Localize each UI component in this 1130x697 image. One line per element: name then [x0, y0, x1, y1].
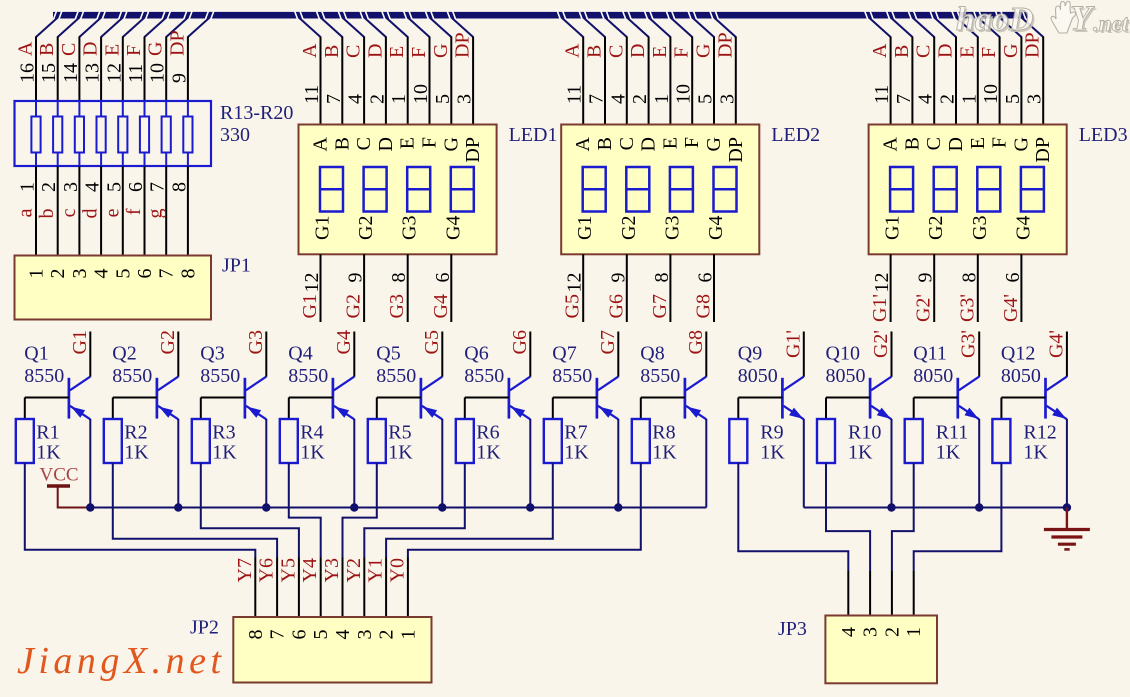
svg-text:A: A	[310, 136, 332, 151]
svg-text:8050: 8050	[826, 365, 866, 387]
svg-text:G3: G3	[245, 330, 267, 354]
svg-text:2: 2	[38, 182, 60, 192]
svg-text:6: 6	[1002, 273, 1024, 283]
resistor R11 1K	[905, 398, 923, 464]
svg-text:3: 3	[454, 94, 476, 104]
wire net Y4 : R4 to JP2 pin 5	[289, 463, 321, 617]
svg-text:Y1: Y1	[365, 558, 387, 582]
svg-text:15: 15	[38, 63, 60, 83]
svg-text:G4: G4	[705, 216, 727, 240]
svg-text:F: F	[978, 47, 1000, 58]
svg-text:G2: G2	[925, 216, 947, 240]
wire net Y2 : R6 to JP2 pin 3	[343, 463, 465, 617]
label R7 1K	[564, 422, 589, 464]
resistor R8 1K	[632, 398, 650, 464]
wire bus-entry/pin 12 net E (left group)	[101, 18, 144, 117]
junction Q10 emitter	[887, 503, 895, 511]
wire net Y6 : R2 to JP2 pin 7	[113, 463, 278, 617]
wire LED2 common pin 6 net G8	[693, 254, 717, 322]
wire net Y3 : R5 to JP2 pin 4	[321, 463, 377, 617]
wire bus-entry/pin 9 net DP (left group)	[166, 18, 209, 117]
svg-text:G1: G1	[574, 216, 596, 240]
junction Q3 emitter	[262, 503, 270, 511]
net label G8 at Q8 collector	[685, 330, 707, 354]
svg-text:8: 8	[388, 273, 410, 283]
wire bus entry to LED1 pin 10 net F	[408, 18, 432, 125]
svg-text:1K: 1K	[1023, 442, 1048, 464]
wire bus-entry/pin 14 net C (left group)	[58, 18, 101, 117]
svg-text:G: G	[1010, 137, 1032, 151]
svg-text:E: E	[967, 137, 989, 149]
resistor R5 1K	[368, 398, 386, 464]
resistor R17 (330)	[118, 117, 127, 153]
bus entry tick marks	[54, 11, 1026, 19]
transistor Q1 8550	[25, 332, 91, 508]
svg-text:7: 7	[893, 94, 915, 104]
wire bus entry to LED3 pin 1 net E	[956, 18, 980, 125]
wire bus entry to LED2 pin 5 net G	[692, 18, 716, 125]
svg-text:G2: G2	[343, 294, 365, 318]
svg-text:R9: R9	[760, 422, 783, 444]
svg-text:C: C	[605, 45, 627, 58]
wire LED1 common pin 6 net G4	[430, 254, 454, 322]
net label G3&#39; at Q11 collector	[958, 330, 980, 358]
label Q1 8550	[24, 343, 64, 387]
transistor Q8 8550	[641, 332, 707, 508]
resistor R1 1K	[16, 398, 34, 464]
wire LED3 common pin 12 net G1&#39;	[869, 254, 893, 322]
svg-text:13: 13	[82, 63, 104, 83]
svg-text:7: 7	[586, 94, 608, 104]
junction Q12 emitter	[1063, 503, 1071, 511]
svg-text:11: 11	[125, 64, 147, 83]
svg-text:12: 12	[103, 63, 125, 83]
svg-text:B: B	[36, 43, 58, 56]
resistor R12 1K	[992, 398, 1010, 464]
wire bus entry to LED2 pin 2 net D	[627, 18, 651, 125]
label Q6 8550	[464, 343, 504, 387]
svg-text:G2: G2	[618, 216, 640, 240]
label Q5 8550	[376, 343, 416, 387]
svg-text:Y5: Y5	[277, 558, 299, 582]
svg-text:6: 6	[695, 273, 717, 283]
svg-text:3: 3	[60, 182, 82, 192]
svg-text:R5: R5	[388, 422, 411, 444]
net label G5 at Q5 collector	[421, 330, 443, 354]
wire LED1 common pin 8 net G3	[386, 254, 410, 322]
svg-text:C: C	[913, 45, 935, 58]
svg-text:5: 5	[695, 94, 717, 104]
resistor R18 (330)	[140, 117, 149, 153]
label R12 1K	[1023, 422, 1056, 464]
svg-text:7: 7	[147, 182, 169, 192]
label R5 1K	[388, 422, 413, 464]
svg-text:F: F	[681, 137, 703, 148]
svg-text:1: 1	[651, 94, 673, 104]
svg-text:D: D	[375, 137, 397, 151]
svg-text:Q8: Q8	[640, 343, 664, 365]
wire R12 to JP3 pin 1	[914, 463, 1002, 616]
svg-text:DP: DP	[1032, 137, 1054, 163]
svg-text:F: F	[989, 137, 1011, 148]
wire LED3 common pin 9 net G2&#39;	[913, 254, 937, 322]
svg-text:LED1: LED1	[509, 124, 558, 146]
connector JP1	[15, 256, 212, 320]
label Q2 8550	[112, 343, 152, 387]
svg-text:Q1: Q1	[24, 343, 48, 365]
svg-text:C: C	[58, 43, 80, 56]
svg-text:D: D	[638, 137, 660, 151]
svg-text:330: 330	[220, 124, 250, 146]
svg-text:12: 12	[564, 273, 586, 293]
svg-text:6: 6	[125, 182, 147, 192]
svg-text:G2': G2'	[870, 330, 892, 358]
svg-text:R8: R8	[652, 422, 675, 444]
junction Q11 emitter	[975, 503, 983, 511]
svg-text:DP: DP	[166, 30, 188, 56]
svg-text:A: A	[869, 43, 891, 58]
wire bus entry to LED2 pin 11 net A	[562, 18, 586, 125]
svg-text:G2: G2	[355, 216, 377, 240]
svg-text:2: 2	[366, 94, 388, 104]
svg-text:C: C	[923, 137, 945, 150]
svg-text:.net: .net	[1093, 11, 1129, 36]
wire LED3 common pin 6 net G4&#39;	[1000, 254, 1024, 322]
resistor R19 (330)	[162, 117, 171, 153]
svg-text:8: 8	[245, 630, 267, 640]
wire bus-entry/pin 15 net B (left group)	[36, 18, 79, 117]
transistor Q7 8550	[553, 332, 619, 508]
svg-text:Q5: Q5	[376, 343, 400, 365]
svg-text:4: 4	[332, 630, 354, 640]
svg-text:8550: 8550	[552, 365, 592, 387]
wire pack pin 3 to JP1, net c	[58, 152, 82, 255]
svg-text:3: 3	[1024, 94, 1046, 104]
label R6 1K	[476, 422, 501, 464]
svg-text:8: 8	[651, 273, 673, 283]
svg-text:R7: R7	[564, 422, 587, 444]
svg-text:Y3: Y3	[321, 558, 343, 582]
svg-text:4: 4	[915, 94, 937, 104]
svg-text:3: 3	[69, 269, 91, 279]
label R9 1K	[760, 422, 785, 464]
svg-text:8050: 8050	[738, 365, 778, 387]
svg-text:G: G	[1000, 44, 1022, 58]
svg-text:F: F	[419, 137, 441, 148]
junction Q5 emitter	[438, 503, 446, 511]
net label G2&#39; at Q10 collector	[870, 330, 892, 358]
svg-text:G1': G1'	[782, 330, 804, 358]
svg-text:Q4: Q4	[288, 343, 312, 365]
svg-text:A: A	[562, 43, 584, 58]
svg-text:Q10: Q10	[826, 343, 860, 365]
svg-text:D: D	[945, 137, 967, 151]
svg-text:G2: G2	[157, 330, 179, 354]
transistor Q9 8050	[738, 332, 804, 508]
svg-text:g: g	[145, 209, 167, 219]
wire bus entry to LED2 pin 1 net E	[649, 18, 673, 125]
svg-text:b: b	[36, 209, 58, 219]
resistor R10 1K	[817, 398, 835, 464]
label Q10 8050	[826, 343, 866, 387]
wire bus entry to LED1 pin 2 net D	[364, 18, 388, 125]
label R10 1K	[848, 422, 881, 464]
resistor R3 1K	[192, 398, 210, 464]
svg-text:9: 9	[168, 73, 190, 83]
svg-text:LED3: LED3	[1079, 124, 1128, 146]
transistor Q10 8050	[826, 332, 892, 508]
svg-text:G8: G8	[685, 330, 707, 354]
wire bus entry to LED1 pin 4 net C	[342, 18, 366, 125]
svg-text:10: 10	[673, 84, 695, 104]
svg-text:Q6: Q6	[464, 343, 488, 365]
label Q12 8050	[1001, 343, 1041, 387]
svg-text:e: e	[101, 208, 123, 217]
4-digit 7-segment display LED2	[561, 125, 759, 255]
svg-text:G4: G4	[442, 216, 464, 240]
junction Q6 emitter	[526, 503, 534, 511]
wire bus entry to LED3 pin 10 net F	[978, 18, 1002, 125]
connector JP2	[233, 617, 431, 683]
svg-text:G1: G1	[882, 216, 904, 240]
svg-text:8050: 8050	[913, 365, 953, 387]
svg-text:DP: DP	[452, 32, 474, 58]
net label G4&#39; at Q12 collector	[1045, 330, 1067, 358]
label Q8 8550	[640, 343, 680, 387]
svg-text:G1': G1'	[869, 294, 891, 322]
svg-text:E: E	[397, 137, 419, 149]
svg-text:G3: G3	[399, 216, 421, 240]
resistor R4 1K	[280, 398, 298, 464]
wire pack pin 6 to JP1, net f	[123, 152, 147, 255]
svg-text:G: G	[430, 44, 452, 58]
svg-text:2: 2	[937, 94, 959, 104]
resistor R6 1K	[456, 398, 474, 464]
svg-text:Q3: Q3	[200, 343, 224, 365]
svg-text:8550: 8550	[464, 365, 504, 387]
svg-text:DP: DP	[714, 32, 736, 58]
svg-text:Y4: Y4	[299, 558, 321, 582]
label LED3	[1079, 124, 1128, 146]
svg-text:Q9: Q9	[738, 343, 762, 365]
svg-text:G3: G3	[661, 216, 683, 240]
wire bus entry to LED1 pin 11 net A	[299, 18, 323, 125]
svg-text:B: B	[594, 137, 616, 150]
net label G4 at Q4 collector	[333, 330, 355, 354]
svg-text:G4': G4'	[1045, 330, 1067, 358]
svg-text:G4': G4'	[1000, 294, 1022, 322]
svg-text:1K: 1K	[124, 442, 149, 464]
wire bus-entry/pin 10 net G (left group)	[145, 18, 188, 117]
svg-text:D: D	[935, 44, 957, 58]
svg-text:1K: 1K	[848, 442, 873, 464]
svg-text:G4: G4	[430, 294, 452, 318]
svg-text:12: 12	[301, 273, 323, 293]
wire bus entry to LED2 pin 4 net C	[605, 18, 629, 125]
svg-text:6: 6	[432, 273, 454, 283]
svg-text:JP1: JP1	[222, 255, 251, 277]
svg-text:4: 4	[838, 627, 860, 637]
svg-text:G1: G1	[312, 216, 334, 240]
svg-text:4: 4	[82, 182, 104, 192]
svg-text:E: E	[386, 46, 408, 58]
svg-text:E: E	[956, 46, 978, 58]
label Q7 8550	[552, 343, 592, 387]
svg-text:14: 14	[60, 63, 82, 83]
svg-text:5: 5	[1002, 94, 1024, 104]
svg-text:2: 2	[376, 630, 398, 640]
svg-text:G4: G4	[1012, 216, 1034, 240]
svg-text:1K: 1K	[564, 442, 589, 464]
wire bus entry to LED2 pin 3 net DP	[714, 18, 738, 125]
wire R10 to JP3 pin 3	[826, 463, 870, 616]
svg-text:G5: G5	[421, 330, 443, 354]
wire bus entry to LED3 pin 11 net A	[869, 18, 893, 125]
svg-text:6: 6	[288, 630, 310, 640]
svg-text:JiangX.net: JiangX.net	[17, 640, 226, 682]
wire bus entry to LED2 pin 10 net F	[671, 18, 695, 125]
resistor R20 (330)	[183, 117, 192, 153]
label R13-R20 value 330	[220, 102, 293, 146]
svg-text:G4: G4	[333, 330, 355, 354]
svg-text:G: G	[440, 137, 462, 151]
svg-text:c: c	[58, 208, 80, 217]
svg-text:8550: 8550	[200, 365, 240, 387]
svg-text:1K: 1K	[212, 442, 237, 464]
net label G1&#39; at Q9 collector	[782, 330, 804, 358]
svg-text:5: 5	[112, 269, 134, 279]
svg-text:R12: R12	[1023, 422, 1056, 444]
svg-text:A: A	[880, 136, 902, 151]
svg-text:10: 10	[147, 63, 169, 83]
svg-text:1K: 1K	[760, 442, 785, 464]
svg-text:3: 3	[716, 94, 738, 104]
transistor Q2 8550	[113, 332, 179, 508]
svg-text:JP2: JP2	[190, 617, 219, 639]
label R2 1K	[124, 422, 149, 464]
svg-text:1K: 1K	[300, 442, 325, 464]
wire net Y5 : R3 to JP2 pin 6	[201, 463, 300, 617]
net label G6 at Q6 collector	[509, 330, 531, 354]
svg-text:R2: R2	[124, 422, 147, 444]
resistor pack R13-R20 330 box	[15, 101, 212, 166]
svg-text:Q11: Q11	[913, 343, 947, 365]
label R4 1K	[300, 422, 325, 464]
svg-text:3: 3	[354, 630, 376, 640]
wire GND rail (Q9-Q12 emitters)	[804, 507, 1067, 509]
svg-text:8550: 8550	[288, 365, 328, 387]
resistor R13 (330)	[31, 117, 40, 153]
svg-text:a: a	[15, 208, 37, 217]
wire bus entry to LED3 pin 2 net D	[934, 18, 958, 125]
svg-text:1K: 1K	[652, 442, 677, 464]
svg-text:Y: Y	[1070, 0, 1095, 38]
svg-text:Y6: Y6	[256, 558, 278, 582]
svg-text:1K: 1K	[36, 442, 61, 464]
bus VCC top rail	[53, 12, 1028, 19]
svg-text:G: G	[693, 44, 715, 58]
svg-text:8: 8	[168, 182, 190, 192]
wire bus-entry/pin 16 net A (left group)	[15, 18, 58, 117]
resistor R7 1K	[544, 398, 562, 464]
svg-text:G7: G7	[597, 330, 619, 354]
net label G2 at Q2 collector	[157, 330, 179, 354]
wire bus entry to LED1 pin 5 net G	[430, 18, 454, 125]
resistor R16 (330)	[97, 117, 106, 153]
svg-text:G1: G1	[69, 330, 91, 354]
svg-text:C: C	[616, 137, 638, 150]
svg-text:Q2: Q2	[112, 343, 136, 365]
label Q4 8550	[288, 343, 328, 387]
svg-text:1: 1	[26, 269, 48, 279]
svg-text:4: 4	[91, 269, 113, 279]
svg-text:A: A	[299, 43, 321, 58]
svg-text:D: D	[364, 44, 386, 58]
wire LED1 common pin 12 net G1	[299, 254, 323, 322]
svg-text:G1: G1	[299, 294, 321, 318]
svg-text:DP: DP	[462, 137, 484, 163]
wire pack pin 8 to JP1, net dp	[168, 152, 190, 255]
label Q11 8050	[913, 343, 953, 387]
wire R9 to JP3 pin 4	[738, 463, 848, 616]
wire bus-entry/pin 11 net F (left group)	[123, 18, 166, 117]
wire pack pin 4 to JP1, net d	[80, 152, 104, 255]
net label G3 at Q3 collector	[245, 330, 267, 354]
svg-text:2: 2	[47, 269, 69, 279]
svg-text:haoD: haoD	[956, 1, 1033, 38]
watermark haoDIY.net	[956, 0, 1130, 40]
label LED2	[771, 124, 820, 146]
svg-text:1: 1	[17, 182, 39, 192]
svg-text:C: C	[343, 45, 365, 58]
wire bus entry to LED1 pin 3 net DP	[451, 18, 475, 125]
svg-text:1: 1	[388, 94, 410, 104]
label JP3	[778, 618, 807, 640]
svg-text:R10: R10	[848, 422, 881, 444]
svg-text:7: 7	[323, 94, 345, 104]
svg-text:F: F	[671, 47, 693, 58]
svg-text:LED2: LED2	[771, 124, 820, 146]
svg-text:Y7: Y7	[234, 558, 256, 582]
svg-text:10: 10	[980, 84, 1002, 104]
svg-text:1: 1	[958, 94, 980, 104]
power symbol VCC	[40, 465, 91, 508]
svg-text:8550: 8550	[376, 365, 416, 387]
junction Q2 emitter	[174, 503, 182, 511]
svg-text:2: 2	[629, 94, 651, 104]
svg-text:1K: 1K	[388, 442, 413, 464]
svg-text:12: 12	[871, 273, 893, 293]
wire LED2 common pin 12 net G5	[562, 254, 586, 322]
svg-text:R4: R4	[300, 422, 323, 444]
svg-text:8050: 8050	[1001, 365, 1041, 387]
svg-text:D: D	[80, 42, 102, 56]
ground symbol	[1044, 508, 1090, 550]
wire bus entry to LED3 pin 4 net C	[913, 18, 937, 125]
connector JP3	[825, 616, 937, 684]
svg-text:6: 6	[134, 269, 156, 279]
wire net Y0 : R8 to JP2 pin 1	[386, 463, 640, 617]
svg-text:G8: G8	[693, 294, 715, 318]
4-digit 7-segment display LED3	[869, 125, 1067, 255]
svg-text:A: A	[572, 136, 594, 151]
wire pack pin 1 to JP1, net a	[15, 152, 39, 255]
svg-text:3: 3	[860, 627, 882, 637]
svg-text:R13-R20: R13-R20	[220, 102, 293, 124]
svg-text:JP3: JP3	[778, 618, 807, 640]
svg-text:5: 5	[103, 182, 125, 192]
resistor R2 1K	[104, 398, 122, 464]
